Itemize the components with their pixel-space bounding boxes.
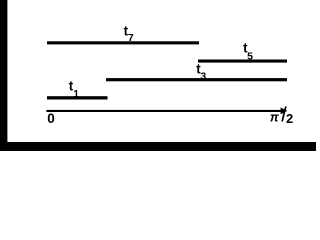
slash of pi/2: [282, 106, 286, 121]
svg-text:2: 2: [286, 111, 293, 126]
axis arrowhead: [281, 107, 288, 114]
bottom border bar: [0, 142, 316, 151]
label t1: [69, 79, 79, 101]
left border bar: [0, 0, 7, 151]
svg-text:π: π: [270, 111, 280, 125]
segment t1: [47, 96, 108, 99]
label t5: [243, 40, 253, 62]
svg-text:7: 7: [128, 32, 134, 44]
svg-text:0: 0: [47, 111, 55, 126]
svg-text:3: 3: [200, 71, 206, 83]
segment t7: [47, 41, 199, 44]
segment t5: [198, 60, 287, 63]
axis line: [46, 110, 282, 112]
label t7: [124, 24, 134, 45]
svg-text:1: 1: [73, 88, 79, 100]
label t3: [196, 62, 206, 83]
segment t3: [106, 78, 287, 81]
svg-text:5: 5: [247, 51, 253, 63]
